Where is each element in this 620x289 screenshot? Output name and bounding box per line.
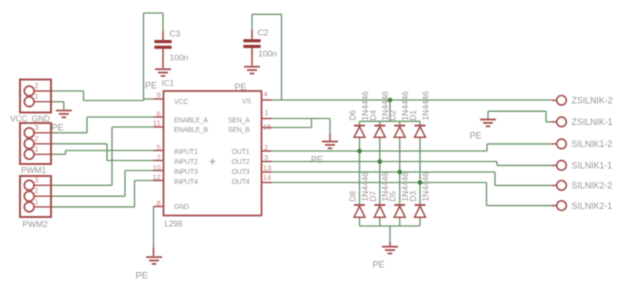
- svg-text:VS: VS: [242, 98, 251, 105]
- svg-text:INPUT3: INPUT3: [174, 169, 198, 176]
- svg-text:1: 1: [35, 144, 39, 153]
- svg-text:PE: PE: [235, 82, 247, 92]
- svg-text:6: 6: [156, 109, 160, 118]
- svg-text:1: 1: [35, 92, 39, 101]
- svg-text:ZSILNIK-1: ZSILNIK-1: [572, 117, 613, 127]
- svg-text:INPUT1: INPUT1: [174, 149, 198, 156]
- svg-text:ENABLE_B: ENABLE_B: [174, 127, 208, 134]
- svg-text:OUT1: OUT1: [232, 149, 250, 156]
- svg-text:D2: D2: [389, 110, 398, 121]
- svg-text:GND: GND: [174, 204, 189, 211]
- svg-text:D7: D7: [369, 191, 378, 202]
- svg-text:8: 8: [156, 199, 160, 208]
- svg-text:D5: D5: [389, 191, 398, 202]
- svg-text:VCC: VCC: [174, 99, 188, 106]
- svg-text:1N4446: 1N4446: [420, 172, 430, 202]
- svg-text:SILNIK1-2: SILNIK1-2: [572, 139, 613, 149]
- svg-text:3: 3: [264, 153, 268, 162]
- svg-text:D6: D6: [349, 110, 358, 121]
- svg-text:D3: D3: [409, 191, 418, 202]
- svg-text:7: 7: [156, 153, 160, 162]
- svg-text:D8: D8: [349, 191, 358, 202]
- svg-text:SILNIK2-1: SILNIK2-1: [572, 201, 613, 211]
- svg-text:PWM2: PWM2: [23, 219, 48, 229]
- svg-text:VCC_GND: VCC_GND: [10, 114, 50, 123]
- svg-text:14: 14: [263, 173, 271, 182]
- svg-text:C3: C3: [170, 29, 181, 39]
- svg-text:13: 13: [263, 164, 271, 173]
- svg-text:2: 2: [35, 81, 39, 90]
- svg-text:12: 12: [152, 173, 160, 182]
- svg-text:PE: PE: [52, 123, 64, 133]
- svg-text:L298: L298: [165, 219, 183, 228]
- svg-text:PE: PE: [311, 155, 323, 165]
- svg-text:10: 10: [152, 163, 160, 172]
- svg-text:15: 15: [263, 123, 271, 132]
- svg-text:SEN_B: SEN_B: [228, 127, 250, 134]
- svg-text:ZSILNIK-2: ZSILNIK-2: [572, 96, 613, 106]
- svg-text:D1: D1: [409, 110, 418, 121]
- svg-text:3: 3: [35, 175, 39, 184]
- svg-text:4: 4: [264, 90, 268, 99]
- svg-text:PE: PE: [373, 260, 385, 270]
- svg-text:11: 11: [153, 119, 161, 128]
- svg-text:IC1: IC1: [162, 79, 175, 88]
- svg-text:PE: PE: [470, 131, 482, 141]
- svg-text:2: 2: [35, 134, 39, 143]
- svg-text:5: 5: [156, 143, 160, 152]
- svg-text:INPUT4: INPUT4: [174, 179, 198, 186]
- svg-text:PE: PE: [145, 81, 157, 91]
- svg-text:D4: D4: [369, 110, 378, 121]
- svg-text:C2: C2: [258, 28, 269, 38]
- svg-text:100n: 100n: [170, 53, 189, 63]
- svg-text:1N4446: 1N4446: [420, 91, 430, 121]
- svg-text:1: 1: [265, 108, 269, 117]
- svg-text:INPUT2: INPUT2: [174, 159, 198, 166]
- svg-text:SILNIK1-1: SILNIK1-1: [572, 161, 613, 171]
- svg-text:100n: 100n: [258, 49, 277, 59]
- svg-text:OUT3: OUT3: [232, 169, 250, 176]
- svg-text:ENABLE_A: ENABLE_A: [174, 118, 208, 125]
- svg-text:SEN_A: SEN_A: [228, 118, 250, 125]
- svg-text:OUT4: OUT4: [232, 179, 250, 186]
- svg-text:2: 2: [264, 143, 268, 152]
- svg-text:PWM1: PWM1: [21, 165, 46, 175]
- svg-text:3: 3: [35, 123, 39, 132]
- svg-text:PE: PE: [136, 271, 149, 282]
- svg-text:9: 9: [156, 90, 160, 99]
- svg-text:2: 2: [35, 186, 39, 195]
- svg-text:OUT2: OUT2: [232, 159, 250, 166]
- svg-text:SILNIK2-2: SILNIK2-2: [572, 181, 613, 191]
- svg-text:1: 1: [35, 197, 39, 206]
